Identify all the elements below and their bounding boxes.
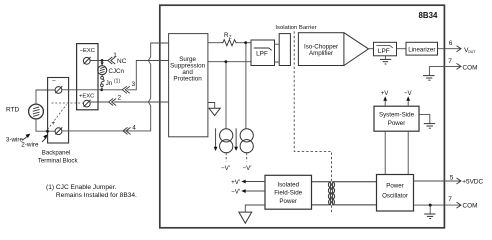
svg-text:Power: Power xyxy=(279,198,297,205)
wire surge to ground xyxy=(208,103,215,109)
linearizer box U5 xyxy=(406,42,438,55)
transformer T1 primary xyxy=(312,182,331,205)
svg-text:+EXC: +EXC xyxy=(79,93,94,99)
svg-text:6: 6 xyxy=(449,40,453,47)
wire to right current source xyxy=(245,43,247,129)
svg-text:OUT: OUT xyxy=(468,50,477,54)
svg-text:−V′: −V′ xyxy=(243,165,253,172)
system-side power box U6 xyxy=(374,106,419,131)
node CJC top junction xyxy=(101,59,104,62)
node mid junction xyxy=(225,60,228,63)
RTD sensor xyxy=(6,104,43,119)
LPF box U2 xyxy=(251,40,275,66)
svg-text:7: 7 xyxy=(448,196,452,203)
svg-text:5: 5 xyxy=(450,174,454,181)
2-wire label arrow xyxy=(21,134,47,148)
svg-text:Power: Power xyxy=(388,120,406,127)
svg-text:−V′: −V′ xyxy=(221,165,231,172)
wire +EXC to pin 2 chevron xyxy=(90,101,109,103)
pin 5 +5VDC xyxy=(414,174,484,185)
svg-text:Z: Z xyxy=(229,35,232,40)
note (1) CJC Enable Jumper xyxy=(46,184,137,199)
isolated field-side power box U8 xyxy=(265,175,312,209)
resistor RZ xyxy=(221,32,238,46)
svg-text:LPF: LPF xyxy=(378,48,390,55)
2-wire dashed wire to +EXC xyxy=(52,102,84,104)
pin 3 chevron xyxy=(122,81,135,93)
svg-text:8B34: 8B34 xyxy=(419,11,438,20)
svg-text:+V′: +V′ xyxy=(231,179,241,186)
module terminal block -EXC/+EXC xyxy=(77,44,98,110)
module box 8B34 xyxy=(160,5,445,228)
svg-text:Remains Installed for 8B34.: Remains Installed for 8B34. xyxy=(56,192,137,199)
svg-text:Jn: Jn xyxy=(106,81,112,87)
wires LPF to isolation element xyxy=(275,44,280,62)
+V' arrow output xyxy=(231,179,265,186)
Isolation Barrier label xyxy=(275,25,316,31)
svg-text:Field-Side: Field-Side xyxy=(274,190,302,197)
svg-text:+V: +V xyxy=(381,90,390,97)
wire -EXC to NC xyxy=(90,60,108,62)
node COM junction xyxy=(429,204,432,207)
svg-text:(1): (1) xyxy=(114,79,120,85)
2-wire jumper dashed diagonal xyxy=(48,105,67,130)
svg-text:RTD: RTD xyxy=(6,107,20,114)
svg-text:Linearizer: Linearizer xyxy=(408,46,435,53)
svg-text:LPF: LPF xyxy=(256,50,268,57)
pin 7 COM top xyxy=(429,58,477,71)
svg-text:2: 2 xyxy=(118,95,122,102)
CJC sensor CJCn xyxy=(98,66,125,75)
wire RTD bottom to backpanel plus terminal xyxy=(36,119,55,131)
node top junction xyxy=(244,41,247,44)
svg-text:Backpanel: Backpanel xyxy=(42,149,70,156)
op-amp U3 iso-chopper amplifier xyxy=(298,33,368,66)
node CJC bottom junction xyxy=(100,88,103,91)
svg-text:NC: NC xyxy=(117,58,127,65)
surge suppression box U1 xyxy=(169,34,208,137)
svg-text:−EXC: −EXC xyxy=(80,48,95,54)
svg-text:−V′: −V′ xyxy=(231,189,241,196)
wire junction to CJC sensor xyxy=(101,61,104,66)
pin 6 VOUT xyxy=(438,40,477,54)
svg-text:COM: COM xyxy=(463,64,478,71)
svg-text:+: + xyxy=(52,120,56,127)
Backpanel Terminal Block label xyxy=(38,149,79,164)
wire pin 2 to surge box xyxy=(114,101,169,103)
ground (field) at isolated power xyxy=(239,212,252,223)
node 2-wire junction xyxy=(46,130,49,133)
wire LPF2 to linearizer xyxy=(397,48,407,50)
svg-text:COM: COM xyxy=(463,203,478,210)
3-wire label arrow xyxy=(6,134,30,144)
jumper Jn (1) xyxy=(101,75,121,90)
-V' arrow output xyxy=(231,189,265,196)
-V arrow at system power xyxy=(404,90,413,106)
wire pin 3 to surge box xyxy=(127,61,168,90)
svg-text:2-wire: 2-wire xyxy=(21,142,39,149)
svg-text:Protection: Protection xyxy=(173,75,202,82)
svg-text:Isolation Barrier: Isolation Barrier xyxy=(275,25,316,31)
power oscillator box U7 xyxy=(377,175,414,212)
wire isolated power to field ground xyxy=(245,205,265,212)
wire RZ to LPF xyxy=(238,42,252,44)
pin 4 chevron xyxy=(123,125,136,135)
ground at pin 7 top xyxy=(423,66,435,80)
ground at system power xyxy=(424,124,435,129)
svg-text:(1) CJC Enable Jumper.: (1) CJC Enable Jumper. xyxy=(46,184,117,191)
wire to left current source xyxy=(225,62,227,129)
isolation barrier dashed line xyxy=(294,31,331,213)
svg-text:+5VDC: +5VDC xyxy=(462,179,483,186)
ground at LPF2 xyxy=(380,56,391,64)
LPF box U4 xyxy=(374,42,397,56)
svg-text:Oscillator: Oscillator xyxy=(382,193,408,200)
wire surge to resistor RZ xyxy=(208,42,221,44)
ground (field) at surge xyxy=(209,108,220,115)
pin 2 chevron xyxy=(109,95,122,106)
pin 1 chevron NC xyxy=(108,52,127,65)
svg-text:Power: Power xyxy=(386,182,404,189)
wire system power to ground xyxy=(419,114,430,123)
wires system power to oscillator xyxy=(385,131,408,174)
svg-text:3: 3 xyxy=(132,81,136,88)
pin 7 COM bottom xyxy=(414,196,478,209)
backpanel terminal block xyxy=(48,78,69,144)
wire RTD top to backpanel minus terminal xyxy=(36,90,55,104)
svg-text:−V: −V xyxy=(404,90,413,97)
current source I1 xyxy=(214,128,233,172)
wire pin 3 from terminal divider to chevron xyxy=(62,89,122,91)
svg-text:Isolated: Isolated xyxy=(277,182,299,189)
svg-text:System-Side: System-Side xyxy=(379,112,415,119)
svg-text:7: 7 xyxy=(448,58,452,65)
+V arrow at system power xyxy=(381,90,390,106)
current source I2 xyxy=(234,128,253,172)
transformer T1 secondary xyxy=(333,182,377,205)
svg-text:Terminal Block: Terminal Block xyxy=(38,157,79,164)
wire amp to LPF2 xyxy=(369,48,374,50)
isolation element xyxy=(279,34,290,66)
svg-text:Amplifier: Amplifier xyxy=(309,50,333,57)
svg-text:CJCn: CJCn xyxy=(109,68,125,75)
wire pin 4 to surge box with hops xyxy=(62,43,169,131)
svg-text:−: − xyxy=(52,78,56,85)
wire surge mid to LPF xyxy=(208,61,251,63)
ground at pin 7 bottom xyxy=(424,205,435,219)
